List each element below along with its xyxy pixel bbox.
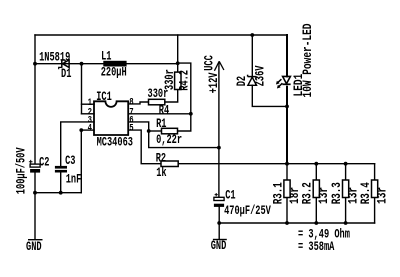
diode D1 1N5819 schottky	[59, 60, 69, 70]
wire pin5 to R2	[128, 130, 161, 164]
wire switch node over to pin7 riser	[178, 63, 191, 114]
resistor R2 1k	[161, 161, 178, 167]
resistor R3.3 13r	[343, 180, 349, 198]
svg-text:L1: L1	[101, 50, 112, 64]
wire LED column top	[286, 35, 288, 76]
svg-text:100µF/50V: 100µF/50V	[15, 147, 29, 194]
node L1 right / R4.2 top	[176, 61, 180, 65]
svg-text:D1: D1	[61, 67, 72, 81]
capacitor C1 electrolytic 470uF/25V	[214, 193, 224, 207]
node pin4 gnd	[79, 128, 83, 132]
svg-text:C2: C2	[39, 156, 49, 170]
wire top rail	[35, 34, 287, 36]
wire left rail down to C2	[34, 35, 36, 165]
resistor R1 0,22r	[162, 128, 178, 134]
wire D2 branch top	[251, 35, 253, 76]
wire pin1 stub	[82, 103, 95, 105]
resistor R4.2 (vertical 330r)	[175, 72, 181, 89]
wire R3.1 leads	[286, 164, 288, 180]
wire riser from D1 node down to pin2	[81, 64, 83, 114]
svg-text:R3.4: R3.4	[360, 182, 374, 204]
wire C2 bottom lead	[34, 173, 36, 193]
svg-text:5: 5	[129, 123, 133, 134]
svg-text:1N5819: 1N5819	[39, 51, 70, 65]
svg-text:GND: GND	[26, 240, 42, 254]
LED emission arrows	[277, 79, 281, 83]
wire R4.2 bottom lead to R4	[165, 90, 178, 103]
node D1 cathode / switch riser	[80, 62, 84, 66]
node C1 bottom / bottom rail	[217, 221, 221, 225]
svg-text:10W Power-LED: 10W Power-LED	[302, 23, 316, 97]
svg-text:R4: R4	[159, 104, 170, 118]
wire pin8 to R4	[128, 102, 148, 104]
wire D2 bottom over to LED column	[252, 85, 287, 106]
wire R1 left lead	[149, 130, 162, 132]
wire R1 right riser	[178, 114, 191, 131]
wire pin6 down to R1 left node	[128, 122, 149, 131]
node D2 top / top rail	[250, 33, 254, 37]
resistor R4 330r	[149, 99, 165, 105]
svg-text:C3: C3	[65, 155, 76, 169]
svg-text:330r: 330r	[148, 88, 169, 102]
node R3.3 bottom	[344, 221, 348, 225]
svg-text:4: 4	[88, 123, 92, 134]
node LED column / sense rail	[285, 162, 289, 166]
svg-text:Z36V: Z36V	[254, 65, 268, 86]
inductor L1	[103, 61, 126, 67]
svg-text:+12V: +12V	[207, 72, 221, 93]
svg-text:D2: D2	[236, 76, 250, 86]
svg-text:R2: R2	[156, 152, 166, 166]
resistor R3.1 18r	[284, 180, 290, 198]
svg-text:= 358mA: = 358mA	[298, 241, 335, 255]
node pin6 / R1 left	[147, 129, 151, 133]
svg-text:IC1: IC1	[96, 90, 112, 104]
capacitor C2 electrolytic 100uF/50V	[29, 160, 40, 173]
wire pin4 riser to gnd rail	[80, 130, 82, 193]
svg-text:R3.3: R3.3	[331, 182, 345, 204]
node R3.3 top	[344, 162, 348, 166]
wire C1 bottom lead and right gnd drop	[218, 207, 220, 239]
svg-text:UCC: UCC	[203, 55, 217, 71]
wire riser top rail to switch node	[177, 35, 179, 64]
node pin7 / R1 right	[189, 112, 193, 116]
capacitor C3 1nF	[55, 166, 67, 173]
svg-text:220µH: 220µH	[101, 66, 127, 80]
node C3 bottom rail	[59, 191, 63, 195]
wire R3.2 leads	[315, 164, 317, 180]
wire pin7 row	[128, 113, 191, 115]
node D1 anode / left rail	[33, 62, 37, 66]
wire R1 node down and right to Vcc column	[149, 131, 219, 148]
node R3.2 top	[314, 162, 318, 166]
svg-text:C1: C1	[225, 189, 236, 203]
wire diode/inductor row	[35, 63, 178, 65]
svg-text:470µF/25V: 470µF/25V	[224, 205, 271, 219]
node R3.1 bottom	[285, 221, 289, 225]
supply arrow UCC +12V	[214, 61, 224, 71]
svg-text:R3.2: R3.2	[301, 182, 315, 204]
node Vcc / pin6 feed	[217, 146, 221, 150]
svg-text:GND: GND	[211, 240, 227, 254]
wire pin3 to C3	[61, 122, 94, 166]
resistor R3.2 13r	[313, 180, 319, 198]
svg-text:13r: 13r	[376, 187, 390, 204]
LED D3 power LED	[276, 76, 291, 88]
wire R4.2 top lead	[177, 64, 179, 72]
node C2 bottom rail	[33, 191, 37, 195]
ground symbol left	[28, 239, 43, 241]
wire R3.3 leads	[345, 164, 347, 180]
wire R3.4 top lead	[374, 164, 376, 180]
node R3.2 bottom	[314, 221, 318, 225]
resistor R3.4 13r	[372, 180, 378, 198]
svg-text:R3.1: R3.1	[272, 182, 286, 204]
wire bottom gnd rail	[219, 222, 374, 224]
svg-text:1nF: 1nF	[66, 173, 82, 187]
svg-text:1k: 1k	[156, 167, 167, 181]
svg-text:R4.2: R4.2	[178, 70, 192, 91]
svg-text:MC34063: MC34063	[97, 136, 134, 150]
svg-text:R1: R1	[156, 118, 167, 132]
wire R3.4 bottom lead	[374, 198, 376, 224]
wire C3 bottom lead	[60, 173, 62, 193]
node D2 bottom / LED cathode	[285, 105, 289, 109]
ground symbol right	[213, 239, 227, 241]
wire left gnd drop	[34, 193, 36, 240]
wire sense rail from R2 to R3.4	[178, 163, 374, 165]
svg-text:0,22r: 0,22r	[156, 134, 182, 148]
wire gnd rail under C2 C3	[35, 192, 81, 194]
wire pin4 stub	[81, 129, 94, 131]
wire pin2 stub	[82, 113, 95, 115]
wire LED column bottom (thick)	[286, 87, 288, 164]
IC IC1 MC34063 DIP8 body	[94, 101, 128, 135]
zener diode D2 Z36V	[248, 75, 257, 86]
wire Vcc column from arrow to C1	[218, 67, 220, 198]
